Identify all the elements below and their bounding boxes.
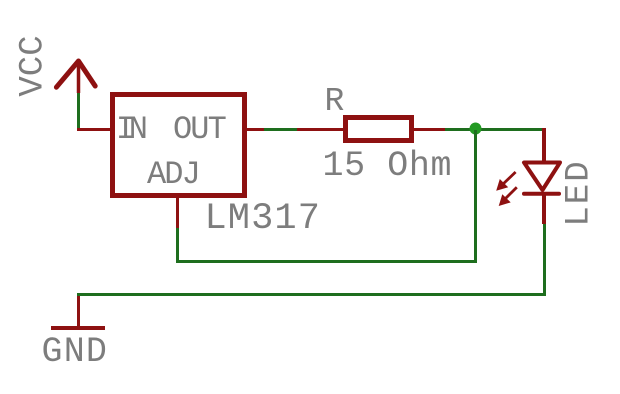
pin wire IN (U1 pin) [77, 128, 110, 131]
wire ADJ down (net) [176, 228, 179, 263]
LED D1 symbol [489, 155, 574, 210]
wire LED cathode down (net) [543, 224, 546, 296]
resistor R body [343, 115, 414, 143]
pin wire resistor right (R pin) [414, 128, 445, 131]
pin label ADJ [147, 159, 199, 191]
op-amp U1 LM317 regulator box [110, 92, 247, 198]
wire resistor to LED (net) [445, 128, 545, 131]
name label R [325, 85, 345, 118]
node VCC label [17, 35, 51, 96]
power flag VCC (arrow symbol) [46, 50, 106, 100]
node GND label [42, 335, 109, 370]
wire junction down (net) [474, 130, 477, 261]
triangle [524, 163, 560, 191]
pin wire OUT (U1 pin) [247, 128, 264, 131]
pin wire LED anode (D1 pin) [542, 128, 546, 161]
pin label OUT [173, 114, 225, 146]
pin wire LED cathode (D1 pin) [542, 195, 546, 224]
light arrow 2 [503, 187, 517, 201]
wire ADJ horizontal (net) [176, 260, 477, 263]
light arrow 1 [501, 172, 516, 186]
value label 15 Ohm [323, 149, 453, 184]
cathode bar [524, 192, 559, 196]
wire OUT to resistor (net) [264, 128, 297, 131]
wire GND riser (pin) [77, 296, 80, 327]
pin label IN [116, 114, 142, 146]
value label LM317 [205, 201, 322, 238]
junction dot [469, 122, 482, 135]
ground symbol bar [51, 326, 105, 330]
wire bottom horizontal GND net [77, 293, 545, 296]
pin wire resistor left (R pin) [297, 128, 343, 131]
pin wire ADJ (U1 pin) [176, 198, 179, 228]
wire VCC vertical (net) [77, 93, 80, 131]
name label LED [562, 160, 596, 227]
